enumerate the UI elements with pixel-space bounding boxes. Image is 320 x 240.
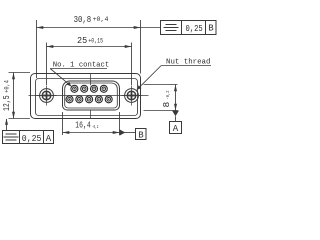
svg-text:-0,2: -0,2 [165, 90, 171, 99]
datum B (bottom centre) [120, 129, 126, 135]
leader to contact pin 1 [50, 69, 71, 87]
svg-text:+0,4: +0,4 [4, 80, 11, 93]
D-shell outer contour [63, 81, 120, 110]
svg-text:8: 8 [161, 102, 172, 108]
svg-text:0,25: 0,25 [22, 133, 42, 144]
svg-text:25: 25 [77, 35, 87, 46]
dimension 16.4 -0.2 [63, 112, 120, 135]
D-shell inner contour [65, 83, 118, 108]
dimension 12.5 +0.4 (vertical left) [9, 73, 31, 119]
svg-text:B: B [208, 24, 214, 34]
svg-text:B: B [138, 130, 144, 140]
contacts: top row (4) and bottom row (5) [66, 85, 112, 103]
feature control frame bottom left: symmetry 0.25 A [3, 131, 54, 144]
contact pin 5 [66, 96, 73, 103]
symmetry symbol [4, 134, 19, 140]
flange inner outline [36, 79, 138, 116]
svg-text:+0,4: +0,4 [93, 16, 109, 23]
symmetry symbol [164, 25, 179, 31]
flange outer outline [31, 74, 141, 119]
datum A (right, below 8 dim) [172, 111, 179, 117]
svg-text:30,8: 30,8 [74, 14, 92, 25]
svg-text:A: A [173, 124, 179, 134]
contact pin 3 [91, 85, 98, 92]
svg-text:0,25: 0,25 [186, 23, 203, 34]
wire vertical centerline (upper segment) [90, 74, 92, 85]
leader to right mounting hole [137, 66, 161, 90]
wire horizontal centerline [29, 95, 149, 97]
svg-text:-0,2: -0,2 [92, 124, 99, 130]
svg-text:16,4: 16,4 [75, 119, 91, 130]
feature control frame top right: symmetry 0.25 B [141, 27, 161, 29]
contact pin 2 [81, 85, 88, 92]
contact pin 1 [71, 85, 78, 92]
contact pin 6 [76, 96, 83, 103]
contact pin 7 [86, 96, 93, 103]
wire vertical centerline (lower segment) [90, 110, 92, 119]
contact pin 8 [95, 96, 102, 103]
dimension 25 +0.15 [47, 43, 132, 86]
dimension 8 -0.2 (vertical right) [144, 85, 178, 111]
svg-text:A: A [46, 134, 52, 144]
leader from frame up to flange bottom [6, 119, 8, 131]
mounting hole right (nut thread) [122, 86, 142, 106]
svg-text:+0,15: +0,15 [88, 37, 103, 44]
contact pin 4 [100, 85, 107, 92]
dimension 30.8 +0.4 [37, 20, 141, 78]
mounting hole left (nut thread) [37, 86, 57, 106]
contact pin 9 [105, 96, 112, 103]
svg-text:12,5: 12,5 [1, 95, 12, 111]
